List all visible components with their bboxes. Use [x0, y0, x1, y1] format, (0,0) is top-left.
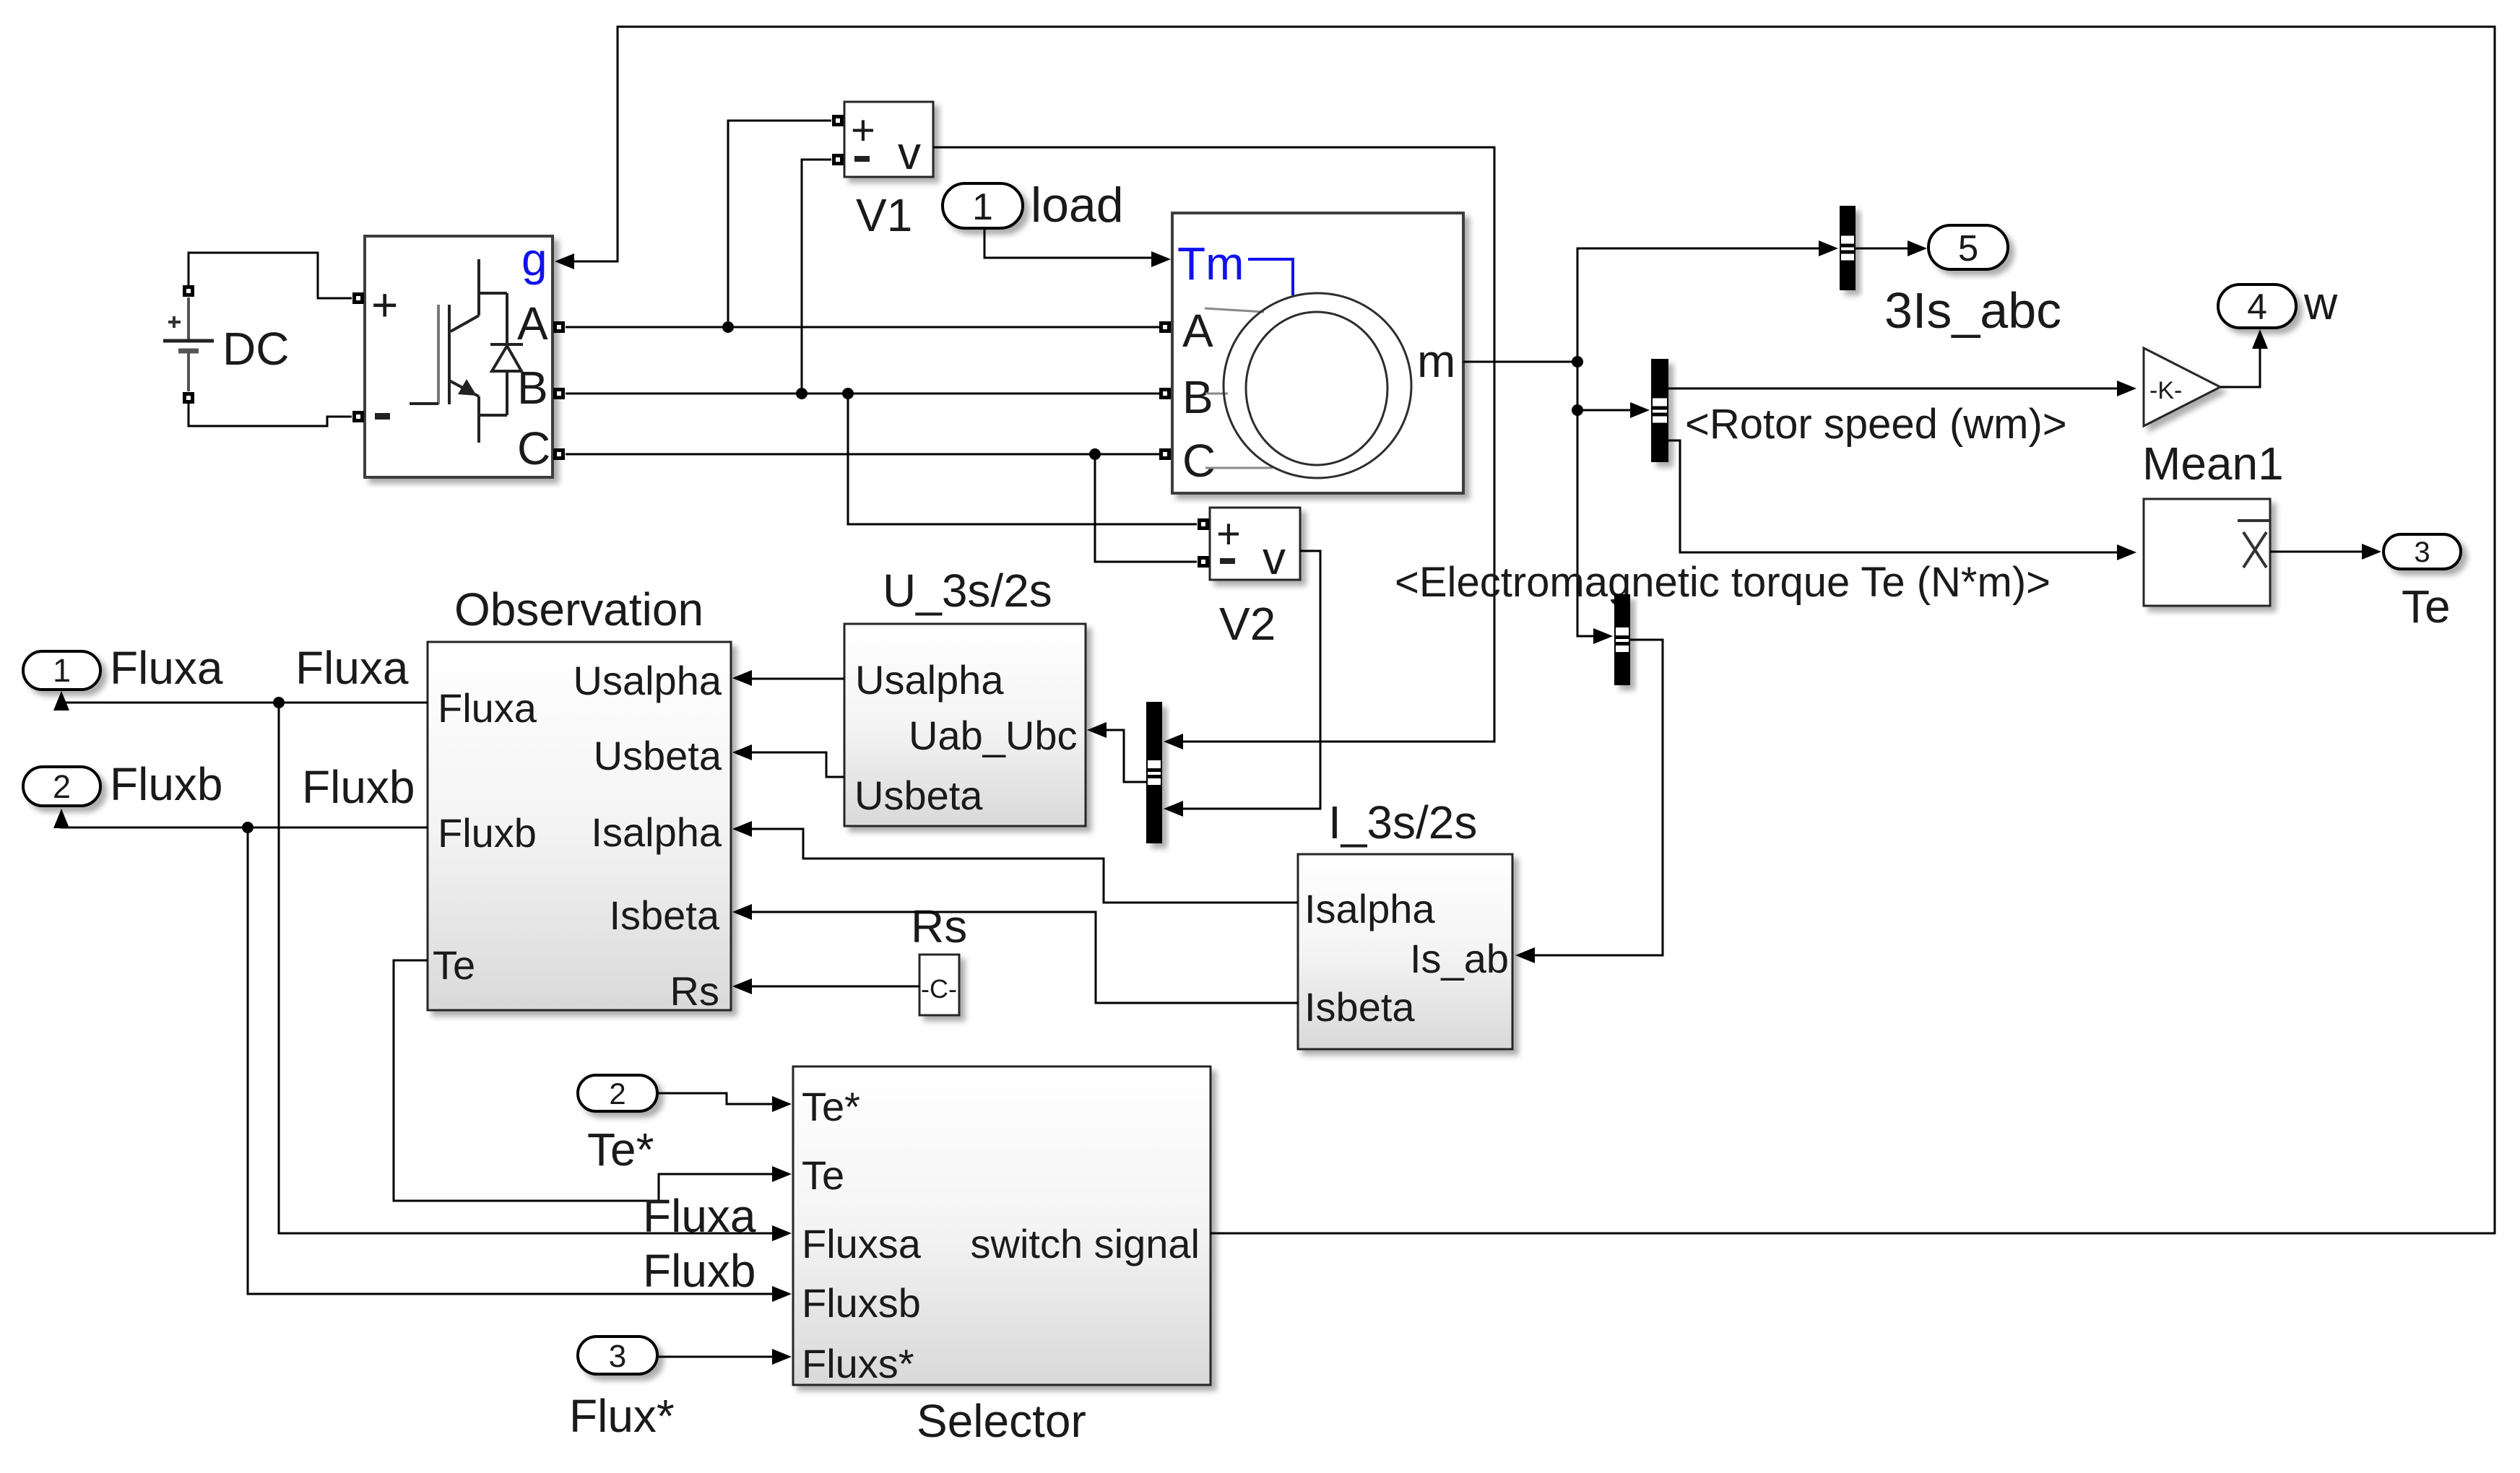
- voltage measurement V1: [844, 102, 933, 177]
- wire Observation Fluxb to port 2: [61, 816, 428, 827]
- svg-text:C: C: [517, 422, 550, 474]
- output port 4 w: [2218, 284, 2296, 328]
- wire V1+ to node A: [728, 121, 831, 321]
- svg-text:switch signal: switch signal: [971, 1221, 1200, 1266]
- svg-text:Fluxsb: Fluxsb: [802, 1280, 921, 1326]
- IGBT/diode icon inside inverter: [410, 259, 523, 443]
- wire V1- to node B: [802, 160, 831, 388]
- svg-text:Uab_Ubc: Uab_Ubc: [909, 713, 1077, 758]
- svg-text:v: v: [898, 127, 921, 179]
- svg-text:Is_ab: Is_ab: [1410, 936, 1509, 981]
- wire Is_ab to I_3s/2s: [1533, 640, 1663, 955]
- wire Flux* to Selector: [657, 1356, 774, 1358]
- svg-text:Flux*: Flux*: [569, 1390, 675, 1442]
- inverter port +: [355, 295, 363, 303]
- svg-text:Te: Te: [433, 942, 475, 988]
- machine port A: [1161, 323, 1169, 331]
- machine rotor inner circle: [1246, 312, 1387, 465]
- output port 2 Fluxb: [23, 767, 100, 806]
- machine rotor outer circle: [1224, 293, 1411, 478]
- svg-text:Te*: Te*: [587, 1124, 654, 1176]
- svg-text:B: B: [1182, 371, 1213, 423]
- svg-text:Rs: Rs: [670, 968, 719, 1014]
- machine stator stubs: [1205, 308, 1273, 468]
- machine Tm blue elbow: [1248, 259, 1293, 295]
- svg-text:4: 4: [2247, 287, 2267, 327]
- node B junction V1-: [796, 388, 807, 399]
- wire node C to V2-: [1095, 454, 1197, 562]
- node Fluxa junction: [273, 697, 285, 708]
- voltage measurement V2: [1210, 508, 1300, 580]
- wire mux output to Uab_Ubc: [1106, 730, 1146, 782]
- constant Rs -C-: [919, 955, 959, 1015]
- svg-text:Isalpha: Isalpha: [1304, 886, 1435, 931]
- wire Fluxa to Selector Fluxsa: [279, 703, 774, 1233]
- machine port B: [1161, 390, 1169, 398]
- wire Usbeta to Observation: [751, 752, 844, 777]
- svg-text:C: C: [1182, 435, 1216, 487]
- svg-text:v: v: [1263, 532, 1286, 584]
- wire V2 v output: [1182, 551, 1320, 809]
- svg-text:-C-: -C-: [921, 974, 957, 1004]
- svg-text:Usalpha: Usalpha: [573, 658, 722, 703]
- mux Uab_Ubc: [1146, 702, 1162, 843]
- svg-text:Usbeta: Usbeta: [854, 773, 983, 818]
- Observation block: [428, 642, 731, 1010]
- svg-text:+: +: [1216, 510, 1241, 557]
- svg-text:Tm: Tm: [1177, 238, 1244, 290]
- svg-text:A: A: [1182, 305, 1213, 357]
- Selector port labels: [802, 1084, 1200, 1386]
- svg-text:V1: V1: [856, 189, 912, 241]
- bus selector speed-torque: [1651, 359, 1668, 462]
- machine port C: [1161, 451, 1169, 459]
- svg-text:Fluxa: Fluxa: [110, 642, 223, 694]
- inverter port C: [555, 451, 563, 459]
- node m junction 2: [1572, 404, 1583, 416]
- wire m bus down: [1577, 362, 1595, 636]
- wire phase C: [566, 453, 1159, 456]
- node m junction: [1572, 356, 1583, 368]
- wire torque to Mean1: [1668, 440, 2118, 552]
- svg-text:Fluxa: Fluxa: [438, 685, 537, 731]
- bus selector Is_ab: [1614, 594, 1630, 685]
- I_3s/2s port labels: [1304, 886, 1509, 1030]
- V2 port +: [1200, 521, 1208, 529]
- V1 port +: [834, 117, 842, 125]
- wire DC- to inverter -: [189, 404, 352, 426]
- wire Observation Te to Selector Te: [394, 960, 774, 1201]
- svg-text:Observation: Observation: [454, 583, 703, 635]
- svg-text:Fluxa: Fluxa: [295, 642, 409, 694]
- wire DC+ to inverter +: [189, 253, 352, 298]
- svg-text:g: g: [521, 233, 547, 285]
- svg-text:2: 2: [53, 768, 71, 805]
- U_3s/2s port labels: [854, 657, 1077, 818]
- svg-text:m: m: [1417, 335, 1455, 387]
- wire phase A: [566, 326, 1159, 329]
- svg-text:Fluxb: Fluxb: [438, 810, 537, 856]
- V2 port -: [1200, 558, 1208, 566]
- bus selector 3Is_abc: [1840, 206, 1856, 290]
- inverter port B: [555, 390, 563, 398]
- wire phase B: [566, 393, 1159, 395]
- input port 3 Flux*: [578, 1337, 657, 1374]
- svg-text:2: 2: [609, 1077, 625, 1111]
- wire gain to port 4: [2220, 345, 2260, 387]
- Mean1 block: [2144, 499, 2270, 606]
- node Fluxb junction: [242, 822, 254, 833]
- node C junction: [1089, 448, 1101, 460]
- svg-text:Isbeta: Isbeta: [609, 892, 719, 938]
- node B junction V2+: [842, 388, 854, 399]
- svg-text:Te: Te: [2402, 581, 2451, 633]
- wire machine m output: [1463, 361, 1577, 363]
- svg-text:-K-: -K-: [2149, 377, 2182, 404]
- machine labels A B C m: [1182, 305, 1455, 487]
- wire Mean1 to port 3: [2270, 551, 2363, 553]
- wire V1 v output: [933, 147, 1494, 742]
- svg-text:Fluxb: Fluxb: [302, 761, 415, 813]
- gain -K-: [2144, 348, 2220, 426]
- svg-text:Te: Te: [802, 1152, 844, 1198]
- svg-text:1: 1: [53, 652, 71, 689]
- svg-text:Selector: Selector: [917, 1395, 1086, 1447]
- node A junction: [722, 321, 734, 333]
- I_3s/2s transform block: [1298, 854, 1512, 1049]
- svg-text:3Is_abc: 3Is_abc: [1884, 282, 2061, 339]
- svg-text:Rs: Rs: [911, 900, 967, 952]
- wire Isbeta to Observation: [751, 912, 1298, 1003]
- wire Te* to Selector: [657, 1093, 774, 1104]
- wire m bus to speed selector: [1577, 409, 1632, 412]
- svg-text:load: load: [1031, 178, 1124, 233]
- svg-text:Fluxa: Fluxa: [643, 1190, 756, 1242]
- svg-text:+: +: [851, 107, 875, 154]
- wire Isalpha to Observation: [751, 829, 1298, 903]
- inverter port A: [555, 323, 563, 331]
- svg-text:Mean1: Mean1: [2142, 438, 2284, 490]
- wire load to Tm: [984, 228, 1153, 258]
- inverter port -: [355, 413, 363, 421]
- svg-text:<Electromagnetic torque Te (N*: <Electromagnetic torque Te (N*m)>: [1395, 559, 2051, 606]
- DC source battery: [163, 287, 214, 402]
- wire switch signal feedback: [573, 27, 2495, 1233]
- wire m bus up to 3Is_abc selector: [1577, 248, 1821, 362]
- svg-text:Fluxb: Fluxb: [643, 1245, 756, 1297]
- input port 2 Te*: [578, 1075, 657, 1111]
- output port 3 Te: [2383, 534, 2461, 569]
- svg-text:I_3s/2s: I_3s/2s: [1328, 796, 1477, 848]
- wire node B to V2+: [848, 394, 1197, 524]
- svg-text:DC: DC: [222, 323, 289, 375]
- wire Usalpha to Observation: [751, 678, 844, 680]
- svg-text:Isbeta: Isbeta: [1304, 984, 1415, 1030]
- input port 1 load: [943, 183, 1023, 228]
- svg-text:Isalpha: Isalpha: [591, 809, 722, 855]
- Mean1 xbar icon: [2238, 521, 2269, 568]
- svg-text:3: 3: [609, 1339, 626, 1374]
- svg-text:5: 5: [1958, 227, 1978, 269]
- svg-text:<Rotor speed (wm)>: <Rotor speed (wm)>: [1685, 401, 2067, 448]
- svg-text:Fluxsa: Fluxsa: [802, 1221, 922, 1266]
- Observation port labels: [433, 658, 722, 1014]
- svg-text:A: A: [517, 297, 548, 349]
- svg-text:w: w: [2303, 277, 2338, 329]
- output port 5: [1928, 225, 2008, 269]
- wire Observation Fluxa to port 1: [61, 698, 428, 703]
- svg-text:V2: V2: [1219, 598, 1276, 650]
- svg-text:Te*: Te*: [802, 1084, 860, 1129]
- svg-text:U_3s/2s: U_3s/2s: [883, 565, 1052, 617]
- asynchronous machine block: [1172, 213, 1463, 493]
- svg-text:Usalpha: Usalpha: [855, 657, 1004, 703]
- svg-text:Usbeta: Usbeta: [594, 733, 722, 778]
- wire to port 5: [1856, 248, 1910, 250]
- inverter labels: [371, 233, 550, 474]
- Selector block: [793, 1066, 1211, 1385]
- wire rotor speed to gain: [1668, 388, 2118, 390]
- svg-text:1: 1: [972, 186, 993, 228]
- V1 port -: [834, 156, 842, 164]
- svg-text:Fluxb: Fluxb: [110, 758, 223, 810]
- wire Rs to Observation: [751, 986, 919, 988]
- wire Fluxb to Selector Fluxsb: [248, 827, 774, 1294]
- inverter bridge block: [365, 236, 553, 477]
- svg-text:Fluxs*: Fluxs*: [802, 1341, 914, 1386]
- U_3s/2s transform block: [844, 624, 1086, 826]
- svg-text:+: +: [371, 279, 398, 331]
- svg-text:3: 3: [2414, 536, 2430, 568]
- output port 1 Fluxa: [23, 651, 100, 690]
